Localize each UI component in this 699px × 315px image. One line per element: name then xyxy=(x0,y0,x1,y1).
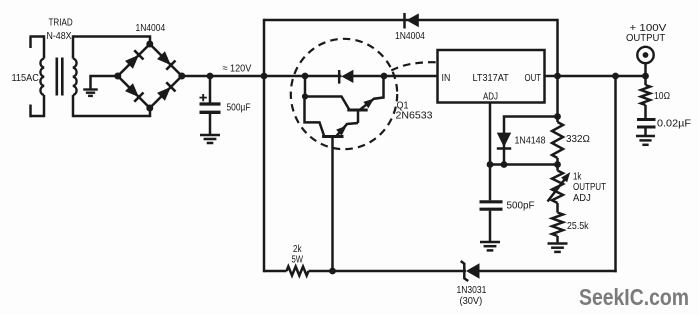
wire bridge left vertex to ground xyxy=(91,76,118,90)
transformer T1 primary winding xyxy=(40,59,44,96)
wire secondary top to bridge xyxy=(73,37,150,45)
wire 0.02uF to ground xyxy=(644,128,647,136)
resistor R2 332ohm xyxy=(552,122,563,158)
transistor Q1b collector wire xyxy=(305,97,325,137)
svg-text:1N4148: 1N4148 xyxy=(515,134,546,146)
junction 1N4148 tap xyxy=(554,113,561,120)
wire 25.5k to ground xyxy=(556,236,559,244)
wire OUT node to right junction xyxy=(558,75,616,78)
svg-text:115AC: 115AC xyxy=(12,72,40,84)
diode D5 1N4004 triangle xyxy=(406,13,419,27)
svg-text:IN: IN xyxy=(442,72,451,84)
wire left vertical of bias loop xyxy=(263,19,266,272)
capacitor C1 plus sign xyxy=(200,97,207,99)
transistor Q1a bar xyxy=(347,109,367,112)
zener D6 1N3031 triangle xyxy=(466,263,480,279)
wire ADJ pin vertical xyxy=(489,103,492,165)
wire ADJ horizontal rail xyxy=(490,163,558,166)
transistor Q1a collector wire xyxy=(305,97,350,111)
wire node A to internal diode xyxy=(305,75,342,78)
capacitor C1 500uF plates xyxy=(200,102,221,105)
junction OUT node xyxy=(554,73,561,80)
wire bottom rail 2k to zener xyxy=(309,270,467,273)
wire bridge to 120V node xyxy=(182,75,210,78)
bridge diode D1 (left-top edge) xyxy=(124,50,143,69)
regulator U1 LT317AT box xyxy=(438,50,545,103)
wire primary bottom vertical xyxy=(43,95,46,117)
svg-text:0.02µF: 0.02µF xyxy=(657,117,691,129)
junction node B xyxy=(302,93,308,99)
capacitor C2 500pF plates xyxy=(480,200,503,203)
svg-text:10Ω: 10Ω xyxy=(654,90,670,102)
wire 120V node to left-rail junction xyxy=(210,75,264,78)
wire right vertical xyxy=(614,76,617,272)
wire 332 to ADJ rail xyxy=(556,158,559,165)
svg-text:5W: 5W xyxy=(292,254,304,266)
wire OUT node down to 332 top xyxy=(556,76,559,122)
ground (C2) xyxy=(480,241,500,244)
junction bridge bottom vertex xyxy=(146,105,153,112)
junction node A (collectors) xyxy=(302,73,309,80)
diode D7 (internal) triangle xyxy=(341,70,353,83)
terminal +100V OUTPUT xyxy=(637,47,653,63)
wire output node to 10ohm xyxy=(644,76,647,85)
svg-text:OUTPUT: OUTPUT xyxy=(626,32,666,44)
svg-text:500pF: 500pF xyxy=(507,200,535,212)
wire 500pF to ground xyxy=(489,211,492,242)
ground (C1) xyxy=(200,134,220,137)
transistor Q1a base wire xyxy=(357,110,360,123)
svg-text:500µF: 500µF xyxy=(227,102,251,114)
wire ADJ to 500pF xyxy=(489,165,492,201)
svg-text:OUT: OUT xyxy=(525,72,542,84)
wire pot to 25.5k xyxy=(556,203,559,213)
dashed lead-line to LT317 IN xyxy=(391,62,437,70)
ground (C3) xyxy=(636,135,655,138)
transformer T1 secondary winding xyxy=(73,59,77,96)
ground (bridge) xyxy=(83,88,98,90)
svg-text:ADJ: ADJ xyxy=(483,90,498,102)
transistor Q1b base wire (to bias) xyxy=(331,138,334,272)
junction raw rail / bias loop xyxy=(261,73,268,80)
wire secondary bottom vertical xyxy=(72,95,75,117)
wire top rail xyxy=(264,19,558,22)
transformer T1 primary lead stub bottom xyxy=(29,105,32,118)
diode D8 1N4148 cathode bar xyxy=(497,147,511,150)
diode D8 1N4148 triangle xyxy=(497,133,511,148)
bridge diode D2 (top-right edge) xyxy=(156,51,175,70)
node 120V junction xyxy=(207,73,214,80)
diode D7 (internal) cathode bar xyxy=(338,70,341,84)
junction Q1 base / bias xyxy=(329,268,336,275)
svg-text:2N6533: 2N6533 xyxy=(396,110,433,122)
svg-text:332Ω: 332Ω xyxy=(566,133,590,145)
svg-text:≈ 120V: ≈ 120V xyxy=(223,63,252,75)
wire 500uF stem xyxy=(209,76,212,103)
transformer T1 primary lead stub top xyxy=(29,37,32,49)
capacitor C3 0.02uF plates xyxy=(637,118,656,121)
junction bridge top vertex xyxy=(146,41,153,48)
transistor Q1a emitter arrow xyxy=(363,95,376,108)
junction ADJ-500pF xyxy=(487,161,494,168)
junction bridge left vertex xyxy=(114,73,121,80)
zener D6 1N3031 cathode bar xyxy=(461,261,469,281)
svg-text:LT317AT: LT317AT xyxy=(473,72,510,84)
svg-text:25.5k: 25.5k xyxy=(567,220,589,232)
transistor Q1b bar xyxy=(322,135,343,138)
bridge diode D3 (left-bottom edge) xyxy=(124,83,143,102)
resistor R5 10ohm xyxy=(641,85,650,105)
junction right vertical tap xyxy=(612,73,619,80)
wire 500uF to ground xyxy=(209,114,212,135)
wire primary top xyxy=(30,35,45,38)
wire bottom rail zener to right vertical xyxy=(480,270,617,273)
svg-text:1N4004: 1N4004 xyxy=(395,30,425,42)
wire node C to regulator IN xyxy=(384,75,438,78)
wire top rail drop to OUT node xyxy=(556,19,559,76)
wire bottom rail left of 2k xyxy=(264,270,287,273)
svg-text:(30V): (30V) xyxy=(460,295,483,307)
svg-text:N-48X: N-48X xyxy=(47,30,72,42)
transistor Q1b emitter wire xyxy=(336,123,358,137)
transformer T1 core xyxy=(55,58,58,96)
junction output node xyxy=(642,73,649,80)
diode D5 1N4004 cathode bar xyxy=(403,13,406,29)
junction node C (emitter / IN) xyxy=(381,73,388,80)
potentiometer R3 1k xyxy=(552,171,563,204)
wire secondary top vertical xyxy=(72,35,75,58)
wire to Q1 collector node xyxy=(264,75,305,78)
wire primary top vertical xyxy=(43,35,46,58)
wire secondary bottom to bridge xyxy=(73,108,150,116)
bridge diode D4 (bottom-right edge) xyxy=(156,82,175,101)
wire to output terminal xyxy=(616,75,646,78)
transistor Q1a emitter wire xyxy=(360,76,384,110)
potentiometer R3 arrow xyxy=(548,178,567,202)
svg-text:TRIAD: TRIAD xyxy=(49,17,74,29)
transistor Q1b emitter arrow xyxy=(336,123,349,136)
wire node A down to node B xyxy=(304,76,307,97)
resistor R1 2k 5W xyxy=(287,267,309,276)
junction pot top xyxy=(554,161,561,168)
bridge rectifier diamond wires xyxy=(118,44,182,108)
junction 1N4148 bottom xyxy=(501,161,508,168)
dashed package outline Q1 xyxy=(291,39,397,149)
wire pot top lead xyxy=(556,165,559,171)
svg-text:SeekIC.com: SeekIC.com xyxy=(579,284,689,310)
svg-text:ADJ: ADJ xyxy=(573,192,591,204)
wire internal diode to node C xyxy=(353,75,384,78)
resistor R4 25.5k xyxy=(552,213,563,237)
wire 10ohm to 0.02uF xyxy=(644,105,647,118)
wire primary bottom xyxy=(30,115,45,118)
svg-text:1N4004: 1N4004 xyxy=(136,22,166,34)
wire OUT pin to out junction xyxy=(545,75,558,78)
wire 1N4148 branch top xyxy=(504,117,558,165)
ground (R4) xyxy=(548,242,568,245)
wire terminal stem xyxy=(644,64,647,77)
junction bridge right vertex xyxy=(178,73,185,80)
